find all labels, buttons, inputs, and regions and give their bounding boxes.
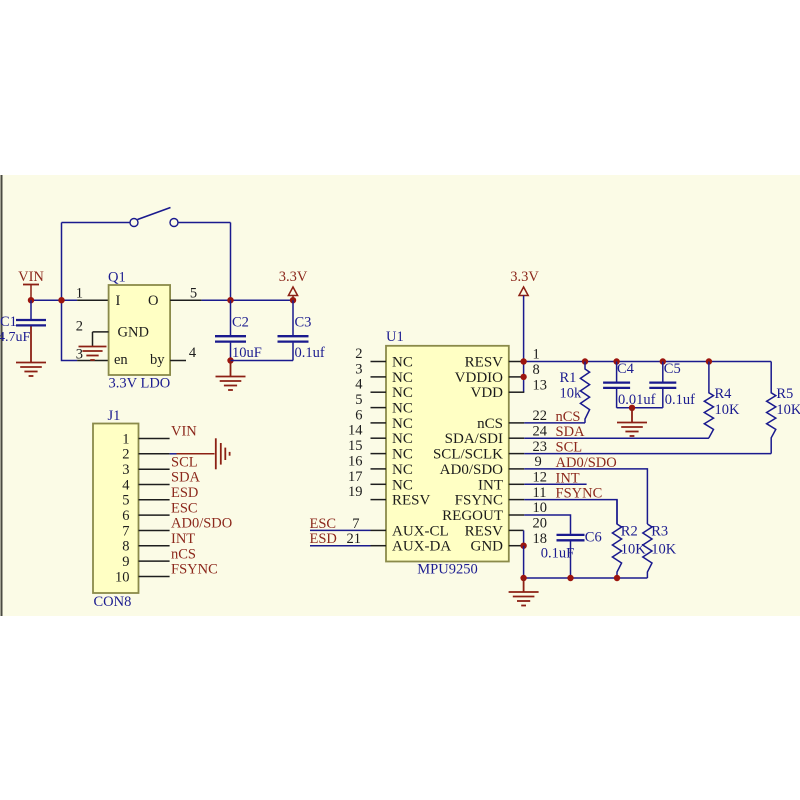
U1 pin12 stub (509, 483, 525, 485)
svg-text:AD0/SDO: AD0/SDO (440, 462, 504, 478)
junction rail/R1 (582, 358, 588, 364)
wire switch right vertical to Q1 pin5 net (230, 223, 232, 301)
svg-text:R1: R1 (560, 370, 577, 386)
svg-text:7: 7 (352, 516, 359, 532)
wire VDD pin13 (509, 391, 525, 393)
junction pin5/C2 (227, 297, 233, 303)
Q1 pin1 stub (77, 299, 109, 301)
svg-text:21: 21 (347, 531, 362, 547)
svg-text:C3: C3 (295, 315, 312, 331)
junction pin1/en vertical (58, 297, 64, 303)
svg-text:22: 22 (533, 408, 548, 424)
svg-text:3: 3 (122, 462, 129, 478)
IC U1 MPU9250 (386, 329, 509, 562)
junction C2 bottom (227, 357, 233, 363)
svg-text:8: 8 (533, 362, 540, 378)
svg-text:10K: 10K (715, 402, 741, 418)
J1 pin 4 stub (139, 484, 170, 486)
junction rail/C4 (613, 358, 619, 364)
U1 left pin 5 stub (371, 407, 387, 409)
svg-text:4.7uF: 4.7uF (0, 330, 31, 345)
U1 pin1 stub (509, 361, 525, 363)
J1 pin 10 stub (139, 576, 170, 578)
J1 pin 9 stub (139, 560, 170, 562)
svg-text:FSYNC: FSYNC (556, 486, 603, 502)
svg-text:NC: NC (392, 431, 413, 447)
U1 pin23 stub (509, 453, 525, 455)
junction rail/C5 (660, 358, 666, 364)
power port VIN (18, 269, 44, 300)
svg-text:12: 12 (533, 470, 548, 486)
svg-text:Q1: Q1 (108, 270, 126, 286)
wire C4-C5 bottoms (617, 407, 663, 409)
wire RESV pin20 down (523, 530, 525, 545)
ground below C2 (216, 361, 246, 391)
capacitor C2 (215, 300, 262, 361)
svg-text:nCS: nCS (171, 546, 196, 562)
svg-text:4: 4 (189, 345, 197, 361)
resistor R4 (704, 362, 713, 439)
svg-text:FSYNC: FSYNC (171, 562, 218, 578)
capacitor C1 (0, 300, 46, 345)
power port 3.3V above U1 (510, 269, 539, 296)
svg-text:C2: C2 (232, 315, 249, 331)
svg-text:5: 5 (355, 392, 362, 408)
svg-text:R3: R3 (651, 524, 668, 540)
svg-text:MPU9250: MPU9250 (417, 562, 477, 578)
svg-text:INT: INT (171, 531, 195, 547)
svg-text:ESC: ESC (171, 500, 198, 516)
switch S1 (130, 208, 178, 227)
svg-text:SDA/SDI: SDA/SDI (445, 431, 503, 447)
svg-text:R5: R5 (776, 386, 793, 402)
U1 left pin 17 stub (371, 483, 387, 485)
svg-text:NC: NC (392, 477, 413, 493)
svg-text:14: 14 (348, 423, 363, 439)
svg-text:U1: U1 (386, 329, 404, 345)
svg-text:NC: NC (392, 447, 413, 463)
wire AD0/SDO pin9 to R3 (524, 469, 647, 524)
regulator Q1 (108, 270, 170, 376)
capacitor C6 (541, 530, 602, 579)
svg-text:en: en (114, 352, 128, 368)
wire 3.3V vertical to VDD (523, 296, 525, 393)
svg-text:16: 16 (348, 453, 363, 469)
capacitor C3 (278, 300, 325, 361)
svg-text:5: 5 (122, 493, 129, 509)
svg-text:3.3V LDO: 3.3V LDO (109, 376, 171, 392)
svg-text:10K: 10K (621, 542, 647, 558)
ground below C4/C5 (617, 408, 647, 436)
svg-text:4: 4 (355, 377, 363, 393)
U1 pin7 stub (371, 529, 387, 531)
svg-text:6: 6 (355, 407, 362, 423)
J1 pin2 stub (139, 453, 170, 455)
capacitor C4 (603, 361, 656, 408)
J1 pin 3 stub (139, 468, 170, 470)
wire GND pin18 (509, 545, 524, 547)
U1 pin9 stub (509, 468, 525, 470)
svg-text:INT: INT (478, 477, 503, 493)
svg-text:nCS: nCS (556, 409, 581, 425)
svg-text:ESD: ESD (310, 531, 337, 547)
svg-text:1: 1 (533, 347, 540, 363)
junction rail/3.3V (520, 358, 526, 364)
wire INT net stub (524, 483, 586, 485)
wire REGOUT pin10 to C6 (524, 515, 570, 533)
svg-text:2: 2 (122, 447, 129, 463)
svg-text:15: 15 (348, 438, 363, 454)
svg-text:AUX-DA: AUX-DA (392, 539, 451, 555)
svg-text:VIN: VIN (171, 424, 197, 440)
svg-text:NC: NC (392, 416, 413, 432)
svg-text:AD0/SDO: AD0/SDO (556, 455, 617, 471)
svg-text:C4: C4 (617, 361, 635, 377)
svg-text:AD0/SDO: AD0/SDO (171, 516, 232, 532)
power port 3.3V at C3 (279, 269, 308, 300)
Q1 pin3 stub (77, 360, 109, 362)
svg-text:7: 7 (122, 523, 129, 539)
svg-text:NC: NC (392, 370, 413, 386)
wire C2 to C3 bottom (231, 360, 294, 362)
resistor R1 (580, 362, 589, 423)
svg-text:NC: NC (392, 401, 413, 417)
svg-text:20: 20 (533, 516, 548, 532)
svg-text:SCL/SCLK: SCL/SCLK (433, 447, 503, 463)
svg-text:VDDIO: VDDIO (455, 370, 503, 386)
svg-text:RESV: RESV (465, 523, 504, 539)
svg-text:17: 17 (348, 469, 363, 485)
svg-text:VIN: VIN (18, 269, 44, 285)
junction VDDIO (520, 374, 526, 380)
junction VIN/C1 (28, 297, 34, 303)
svg-text:10: 10 (533, 500, 548, 516)
wire ESC to U1 AUX-CL pin7 (310, 529, 371, 531)
wire SDA pin24 (524, 437, 709, 439)
connector J1 (93, 408, 139, 610)
ground at Q1 pin2 (79, 346, 107, 360)
wire ESD to U1 AUX-DA pin21 (310, 545, 371, 547)
svg-text:10k: 10k (560, 386, 583, 402)
U1 left pin 19 stub (371, 499, 387, 501)
svg-text:24: 24 (533, 423, 548, 439)
resistor R2 (612, 500, 621, 578)
U1 left pin 2 stub (371, 361, 387, 363)
sheet left border (1, 175, 3, 616)
wire Q1 pin2 to ground (92, 332, 94, 346)
svg-text:SDA: SDA (171, 470, 201, 486)
svg-text:0.01uf: 0.01uf (618, 392, 656, 408)
svg-text:INT: INT (556, 470, 580, 486)
svg-text:CON8: CON8 (94, 594, 132, 610)
wire RESV pin1 / 3.3V rail (524, 361, 772, 363)
U1 left pin 4 stub (371, 391, 387, 393)
capacitor C5 (649, 361, 695, 408)
junction C4/C5 ground (629, 405, 635, 411)
U1 left pin 3 stub (371, 376, 387, 378)
svg-text:I: I (116, 293, 121, 309)
svg-text:10K: 10K (651, 542, 677, 558)
svg-text:RESV: RESV (392, 493, 431, 509)
U1 left pin 6 stub (371, 422, 387, 424)
svg-text:23: 23 (533, 439, 548, 455)
svg-text:GND: GND (118, 325, 149, 341)
U1 pin21 stub (371, 545, 387, 547)
svg-text:3: 3 (355, 361, 362, 377)
J1 pin 5 stub (139, 499, 170, 501)
svg-text:C1: C1 (0, 314, 17, 330)
junction rail/R4 (706, 358, 712, 364)
ground below U1 (509, 578, 539, 606)
svg-text:AUX-CL: AUX-CL (392, 523, 449, 539)
svg-text:RESV: RESV (465, 355, 504, 371)
svg-text:0.1uf: 0.1uf (665, 392, 695, 408)
svg-text:10uF: 10uF (232, 345, 262, 361)
wire SCL pin23 (524, 453, 771, 455)
svg-text:0.1uF: 0.1uF (541, 546, 574, 562)
svg-text:O: O (148, 293, 158, 309)
svg-text:nCS: nCS (477, 416, 503, 432)
junction rail/R2 (614, 575, 620, 581)
wire VIN to Q1 pin1 (31, 299, 77, 301)
svg-text:ESC: ESC (310, 516, 337, 532)
U1 pin10 stub (509, 514, 525, 516)
Q1 pin5 stub (170, 299, 202, 301)
earth ground at J1 pin2 (216, 438, 230, 469)
junction C3 top / 3.3V (290, 297, 296, 303)
svg-text:6: 6 (122, 508, 129, 524)
svg-text:SDA: SDA (556, 424, 586, 440)
J1 pin 1 stub (139, 438, 170, 440)
svg-text:R2: R2 (621, 524, 638, 540)
wire ground rail bottom (524, 577, 648, 579)
junction GND pin18 (520, 543, 526, 549)
Q1 pin2 stub (93, 331, 109, 333)
J1 pin 8 stub (139, 545, 170, 547)
U1 left pin 15 stub (371, 453, 387, 455)
wire VDDIO pin8 (509, 376, 525, 378)
svg-text:FSYNC: FSYNC (455, 493, 503, 509)
svg-text:9: 9 (535, 454, 542, 470)
svg-text:1: 1 (76, 286, 83, 302)
schematic sheet (0, 175, 800, 616)
U1 pin22 stub (509, 422, 525, 424)
U1 left pin 14 stub (371, 437, 387, 439)
J1 pin 6 stub (139, 514, 170, 516)
svg-text:9: 9 (122, 554, 129, 570)
svg-text:10K: 10K (776, 402, 800, 418)
svg-text:4: 4 (122, 477, 130, 493)
U1 pin20 stub (509, 529, 524, 531)
wire J1 pin2 to earth (170, 453, 177, 455)
U1 left pin 16 stub (371, 468, 387, 470)
svg-text:1: 1 (122, 431, 129, 447)
svg-text:ESD: ESD (171, 485, 198, 501)
U1 pin24 stub (509, 437, 525, 439)
wire switch right segment (178, 222, 231, 224)
junction rail/GND (520, 575, 526, 581)
wire Q1 pin5 output to C3/3.3V (202, 299, 293, 301)
svg-text:3.3V: 3.3V (279, 269, 308, 285)
svg-text:2: 2 (355, 346, 362, 362)
svg-text:11: 11 (533, 485, 547, 501)
svg-text:13: 13 (533, 377, 548, 393)
U1 pin11 stub (509, 499, 525, 501)
resistor R5 (767, 362, 776, 454)
svg-text:2: 2 (76, 319, 83, 335)
svg-text:19: 19 (348, 484, 363, 500)
svg-text:10: 10 (115, 569, 130, 585)
svg-text:5: 5 (190, 286, 197, 302)
wire nCS pin22 (524, 422, 585, 424)
svg-text:R4: R4 (715, 386, 733, 402)
junction rail/C6 (567, 575, 573, 581)
svg-text:18: 18 (533, 531, 548, 547)
svg-text:GND: GND (471, 539, 504, 555)
Q1 pin4 stub (170, 360, 186, 362)
svg-text:by: by (150, 352, 165, 368)
ground below C1 (16, 326, 46, 376)
J1 pin 7 stub (139, 530, 170, 532)
wire FSYNC pin11 to R2 (524, 500, 617, 524)
svg-text:C5: C5 (664, 361, 681, 377)
svg-text:8: 8 (122, 539, 129, 555)
svg-text:NC: NC (392, 385, 413, 401)
resistor R3 (643, 524, 652, 578)
svg-text:3.3V: 3.3V (510, 269, 539, 285)
wire left vertical from switch to Q1 en (62, 223, 78, 361)
wire switch left segment (62, 222, 131, 224)
svg-text:NC: NC (392, 462, 413, 478)
svg-text:VDD: VDD (471, 385, 504, 401)
svg-text:J1: J1 (108, 408, 121, 424)
svg-text:3: 3 (76, 347, 83, 363)
svg-text:SCL: SCL (556, 440, 583, 456)
wire GND vertical (523, 546, 525, 578)
svg-text:C6: C6 (585, 530, 602, 546)
svg-text:NC: NC (392, 355, 413, 371)
svg-text:REGOUT: REGOUT (442, 508, 503, 524)
svg-text:0.1uf: 0.1uf (295, 345, 325, 361)
svg-text:SCL: SCL (171, 454, 198, 470)
